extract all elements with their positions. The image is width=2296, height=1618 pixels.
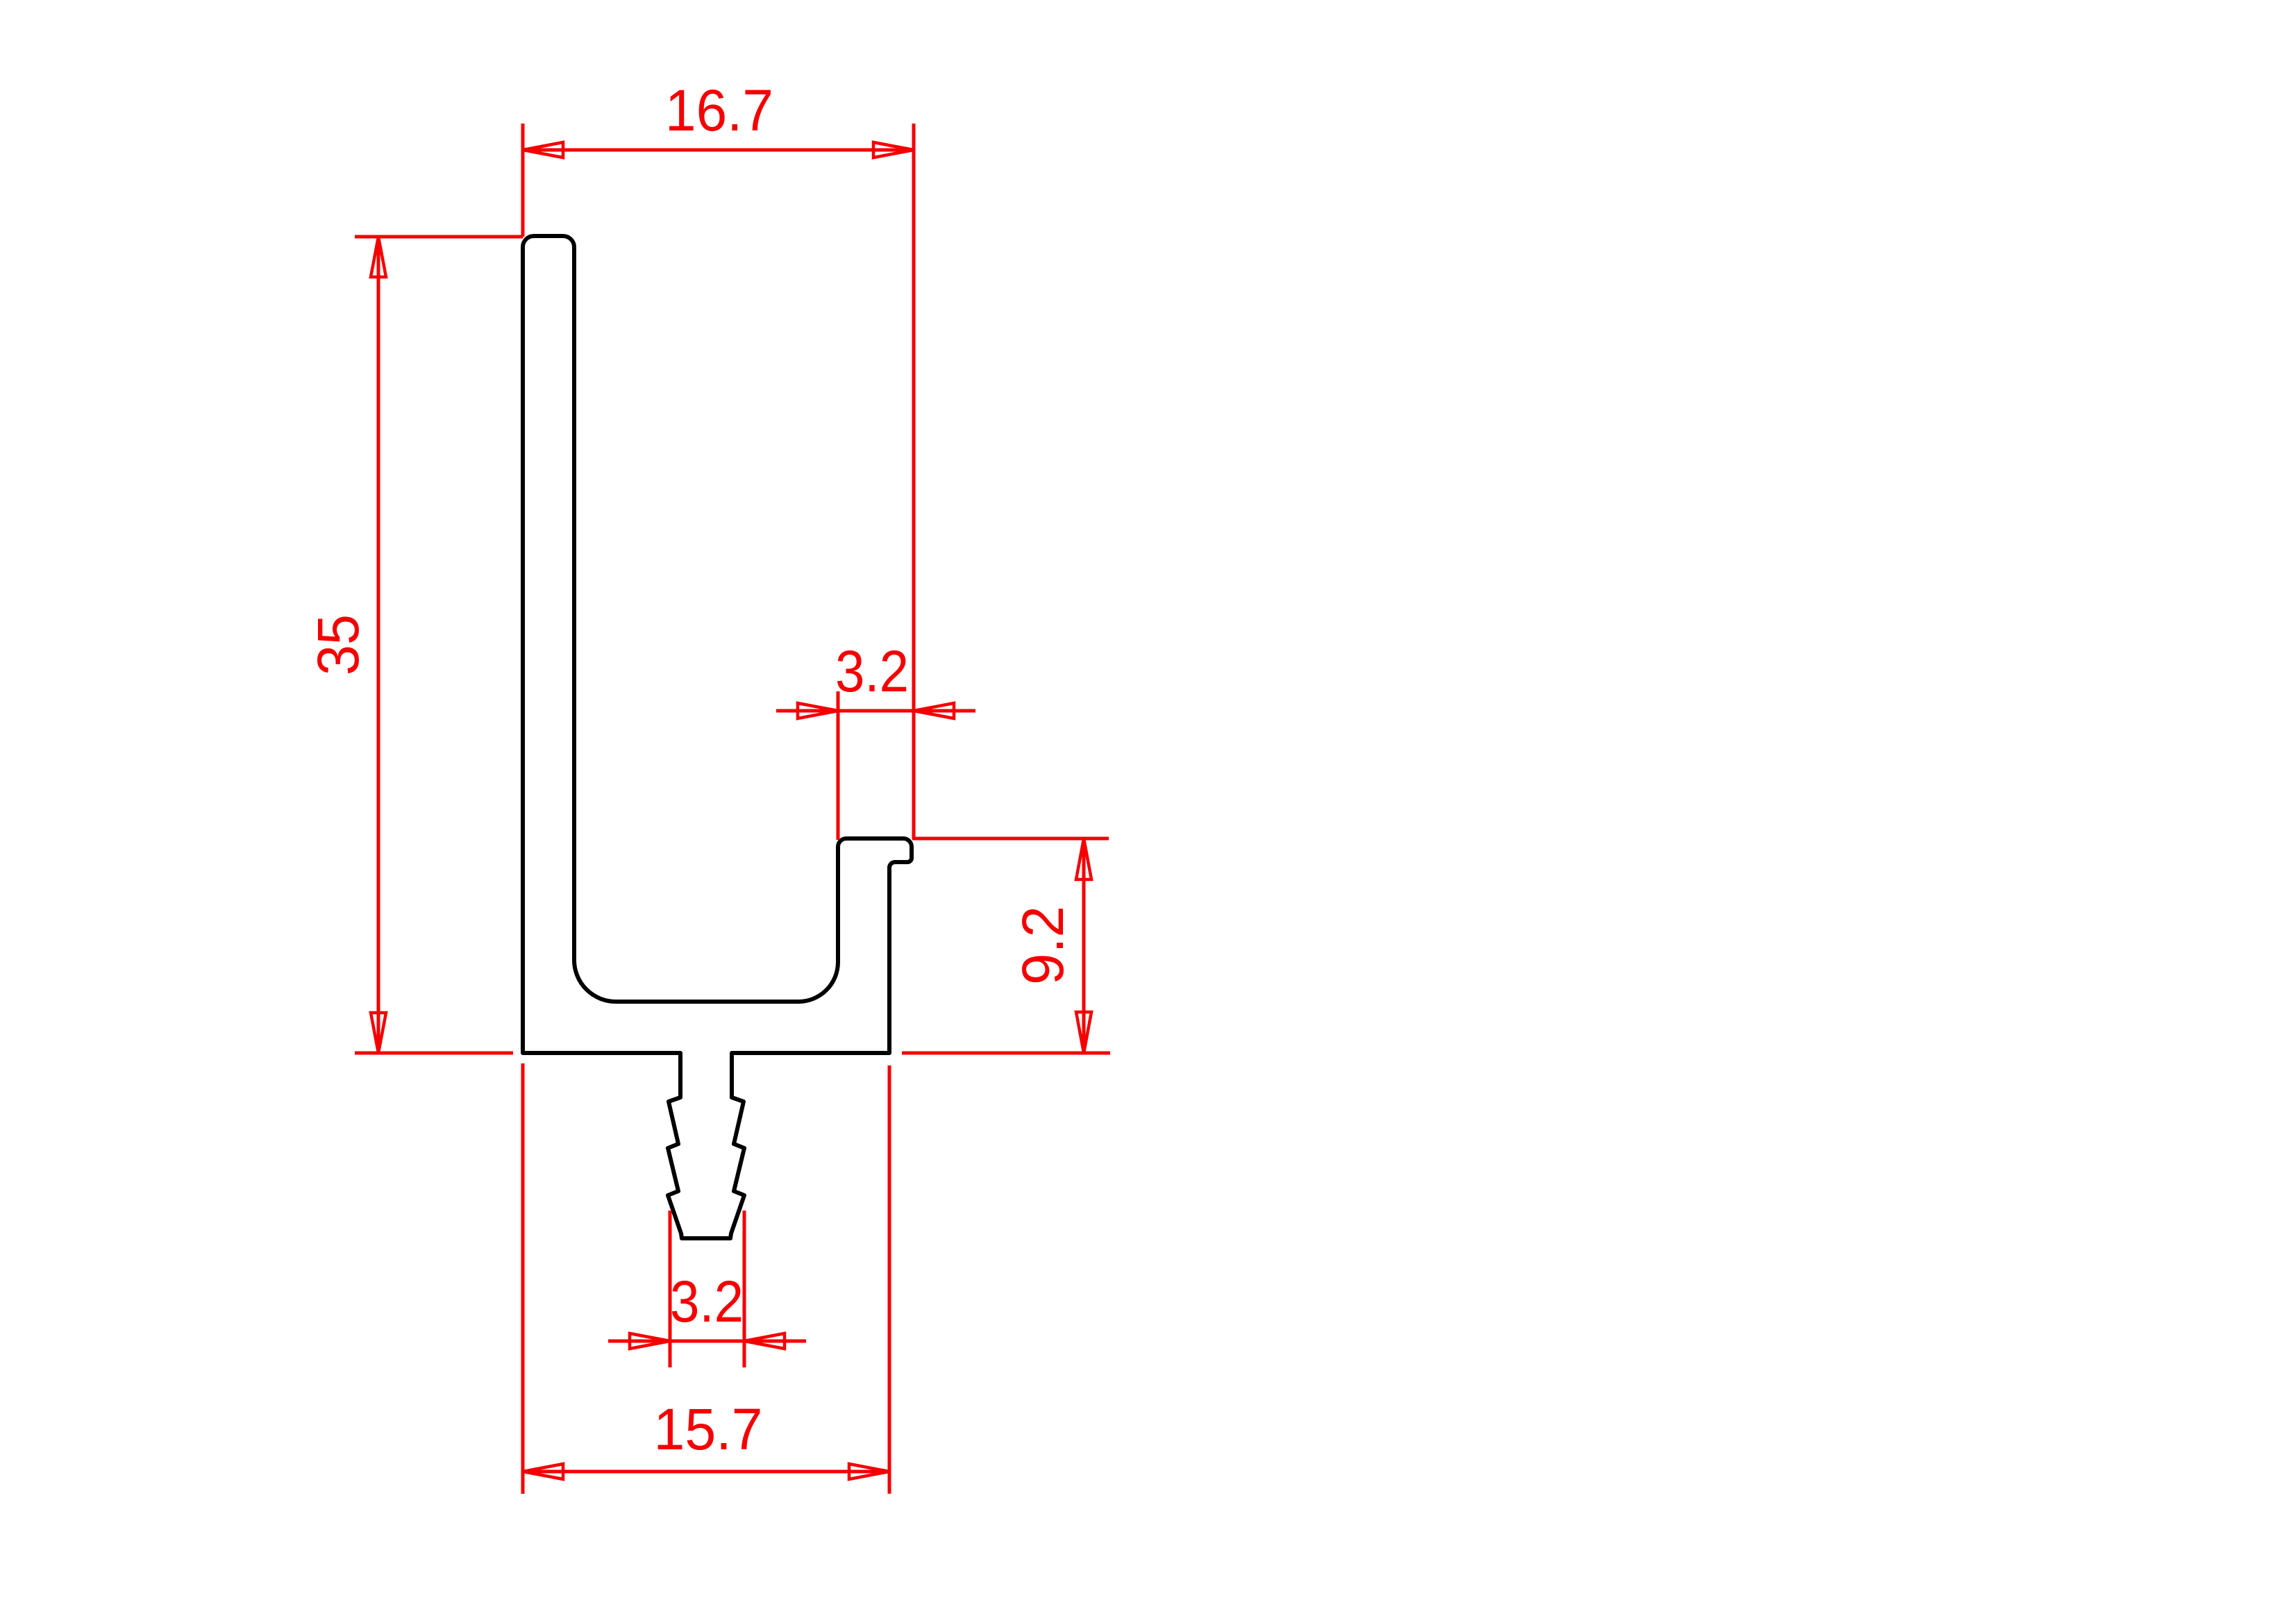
svg-text:9.2: 9.2 [1010,906,1075,985]
svg-text:3.2: 3.2 [835,639,909,704]
svg-text:35: 35 [305,614,371,675]
svg-text:15.7: 15.7 [654,1397,763,1462]
svg-text:16.7: 16.7 [665,78,773,143]
svg-text:3.2: 3.2 [670,1269,744,1334]
